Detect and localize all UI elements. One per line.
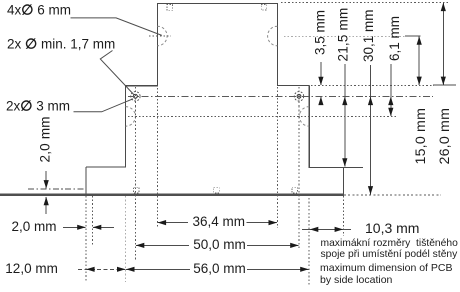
dimension 2,0 mm bottom: [63, 226, 86, 228]
PCB outline left tab edge: [85, 167, 87, 196]
holes horizontal centerline: [128, 95, 433, 97]
dimension 50,0 mm: [136, 244, 189, 246]
svg-text:maximákní rozměry tištěného: maximákní rozměry tištěného: [321, 238, 459, 249]
right step vertical edge: [343, 167, 345, 195]
hole 1.7mm left inner circle: [134, 94, 138, 98]
fiducial square top-left: [167, 5, 173, 11]
extension line x=277 for 36.4mm: [276, 87, 278, 228]
leader for 2x dia min 1,7 mm: [100, 51, 134, 96]
wall line dotted part: [344, 194, 441, 196]
left hole extension line to 50mm dimension: [134, 106, 136, 260]
dimension 36,4 mm: [158, 222, 188, 224]
top-right notch centerline dotted to 15mm dimension: [284, 35, 414, 37]
hole notch 6mm lower-right arc: [299, 107, 309, 127]
svg-text:2x∅ 3 mm: 2x∅ 3 mm: [6, 98, 70, 114]
top-left notch centerline: [149, 35, 171, 37]
dimension 30,1 mm: [370, 65, 372, 194]
svg-text:36,4 mm: 36,4 mm: [193, 214, 246, 229]
leader for 2x dia 3 mm: [74, 99, 134, 112]
PCB outline top section left edge: [156, 4, 158, 86]
right hole vertical centerline: [298, 87, 300, 106]
fiducial square wall-left: [134, 187, 139, 193]
fiducial square wall-center: [214, 187, 220, 193]
top-right notch centerline solid end: [405, 35, 420, 37]
svg-text:2,0 mm: 2,0 mm: [12, 219, 57, 234]
svg-text:4x∅ 6 mm: 4x∅ 6 mm: [7, 2, 71, 18]
hole notch 6mm lower-left arc: [126, 107, 136, 127]
dimension 15,0 mm: [418, 36, 420, 85]
hole 1.7mm right inner circle: [297, 94, 301, 98]
leader for 4x dia 6 mm: [71, 18, 162, 36]
svg-text:56,0 mm: 56,0 mm: [193, 261, 246, 276]
hole notch 6mm top-left arc: [157, 26, 167, 46]
svg-text:21,5 mm: 21,5 mm: [336, 8, 351, 62]
right step horizontal edge: [309, 166, 363, 168]
fiducial square wall-right: [292, 187, 298, 193]
extension line x=85.9 below wall: [85, 196, 87, 282]
svg-text:12,0 mm: 12,0 mm: [5, 261, 58, 276]
fiducial square top-right: [261, 5, 267, 11]
svg-text:30,1 mm: 30,1 mm: [361, 9, 376, 62]
PCB outline left shoulder: [126, 85, 158, 87]
svg-text:2x ∅ min. 1,7 mm: 2x ∅ min. 1,7 mm: [7, 36, 115, 52]
hole 3mm right outer circle: [294, 92, 303, 101]
svg-text:6,1 mm: 6,1 mm: [387, 16, 402, 61]
svg-text:by side location: by side location: [320, 274, 393, 286]
extension line x=309 for 10.3 and 56mm: [308, 198, 310, 287]
dimension 12,0 mm: [78, 268, 125, 270]
PCB outline wide section right edge: [308, 85, 310, 167]
dimension 3,5 mm: [320, 62, 322, 85]
PCB outline left tab top edge: [86, 166, 126, 168]
right hole extension line to 50mm dimension: [298, 106, 300, 250]
dimension 21,5 mm: [344, 64, 346, 167]
svg-text:2,0 mm: 2,0 mm: [38, 116, 53, 162]
svg-text:spoje při umístění podél stěny: spoje při umístění podél stěny: [321, 249, 459, 260]
dimension 10,3 mm: [302, 228, 351, 230]
svg-text:50,0 mm: 50,0 mm: [193, 237, 246, 252]
hole 3mm left outer circle: [131, 92, 140, 101]
extension line x=125.7 below wall: [125, 196, 127, 282]
PCB outline wide section left edge: [125, 86, 127, 168]
shoulder extension line dotted right: [311, 84, 434, 86]
PCB outline top edge: [157, 3, 278, 5]
wall line solid part: [0, 194, 344, 196]
svg-text:15,0 mm: 15,0 mm: [413, 108, 429, 165]
svg-text:maximum dimension of PCB: maximum dimension of PCB: [320, 262, 452, 274]
svg-text:26,0 mm: 26,0 mm: [437, 108, 453, 165]
dimension 2,0 mm left vertical: [45, 171, 47, 188]
left hole vertical centerline: [134, 87, 136, 106]
dimension 26,0 mm: [442, 3, 444, 85]
PCB bottom clearance dash-dot line: [28, 188, 86, 190]
svg-text:3,5 mm: 3,5 mm: [312, 10, 327, 55]
extension line x=92.6 for 2mm: [92, 196, 94, 246]
hole notch 6mm top-right arc: [268, 26, 278, 46]
PCB outline right shoulder: [277, 84, 310, 86]
dimension 6,1 mm: [390, 64, 392, 116]
extension line x=343.6 for 10.3mm: [343, 196, 345, 236]
shoulder extension solid right end: [433, 84, 456, 86]
lower notch centerline dotted: [128, 115, 396, 117]
svg-text:10,3 mm: 10,3 mm: [365, 220, 419, 236]
extension line x=157 for 36.4mm: [156, 88, 158, 228]
dimension 56,0 mm: [126, 268, 190, 270]
top edge extension line dotted: [281, 2, 448, 4]
PCB outline top section right edge: [276, 4, 278, 86]
